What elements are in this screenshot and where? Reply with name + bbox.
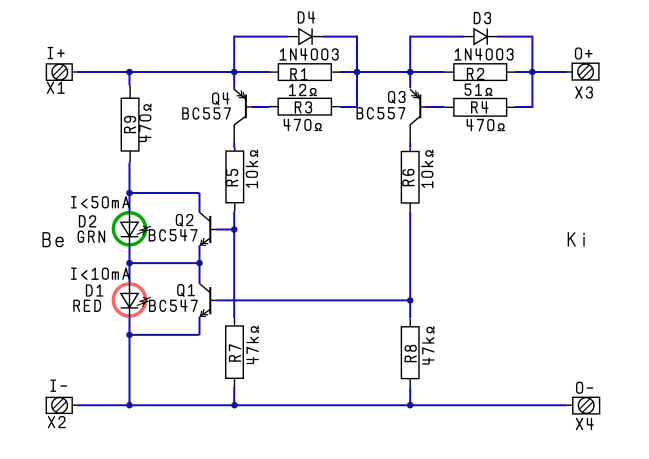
transistor Q1 [200,284,217,317]
wire node A to R9 [129,72,131,85]
LED D2 [113,211,151,246]
terminal X2 [46,397,77,413]
diode D3 value 1N4003 [455,49,513,60]
LED D1 current label [72,268,129,279]
node A junction [126,69,133,76]
terminal X4 name [577,419,594,430]
wire R3 right to node B [340,106,357,108]
wire Q1 emitter to node F [130,317,200,335]
resistor R5 name [227,170,238,186]
resistor R3 value 470Ω [284,119,321,130]
wire R8 to O- rail [409,387,411,405]
node D2-top junction [126,190,133,197]
wire D3 cathode to node D [497,36,532,38]
resistor R8 [401,319,419,388]
resistor R4 value 470Ω [467,120,504,131]
LED D1 name [87,285,103,296]
text Ki [568,233,584,246]
wire into D2 [129,193,131,211]
transistor Q2 [200,212,217,245]
transistor Q3 value BC557 [357,108,405,119]
resistor R3 name [295,102,311,113]
wire Q2 base node down to R7 [233,230,235,318]
resistor R2 name [468,68,484,79]
terminal X1 label I+ [48,48,64,59]
wire Q2 emitter down [199,246,201,263]
wire X1 to node A [78,71,270,73]
transistor Q4 value BC557 [183,108,231,119]
resistor R7 [226,318,244,387]
transistor Q4 name [213,93,229,105]
resistor R1 name [291,69,307,80]
resistor R2 value 51Ω [465,84,492,95]
resistor R5 [226,148,244,212]
wire D2 top to Q2 collector [130,193,200,212]
wire D2 to node E [129,246,131,263]
node F junction [126,332,133,339]
resistor R6 value 10kΩ [422,150,433,187]
resistor R7 name [230,345,241,361]
resistor R3 [269,98,340,115]
node A2 junction [231,69,238,76]
LED D2 name [80,216,96,227]
terminal X2 name [49,417,66,428]
Q1 base junction [407,297,414,304]
resistor R9 value 470Ω [140,104,151,141]
wire R4 right to node D [515,106,533,108]
terminal X1 [46,64,77,80]
wire node C to Q3 emitter [409,72,411,88]
resistor R8 value 47kΩ [423,327,434,364]
transistor Q2 name [176,215,192,227]
resistor R8 name [405,345,416,361]
wire node F to I- rail [129,335,131,405]
terminal X2 label I- [51,380,66,391]
transistor Q4 [234,89,251,143]
terminal X3 name [576,87,592,98]
diode D3 [463,28,497,44]
resistor R9 [121,85,139,162]
terminal X3 [567,63,599,80]
wire D4 cathode to node B [322,36,357,38]
transistor Q3 name [389,92,405,104]
wire R6 to Q1 base node [409,212,411,319]
terminal X4 label O- [577,382,593,393]
resistor R5 value 10kΩ [246,150,257,187]
rail junction 2 [231,402,238,409]
node D junction [529,69,536,76]
wire D1 to node F [129,318,131,335]
text Be [43,233,63,247]
wire node C up [409,36,411,72]
LED D1 value RED [74,300,101,311]
Q2 base junction [231,226,238,233]
wire node B vertical [356,36,358,108]
diode D4 value 1N4003 [280,49,338,60]
wire node B to R2 [340,71,445,73]
wire node A to Q4 emitter [233,72,235,90]
node B junction [354,69,361,76]
LED D1 [113,282,151,317]
rail junction 3 [407,402,414,409]
wire Q1 base [216,299,410,301]
wire R5 to Q2 base node [233,211,235,229]
diode D4 [288,28,322,44]
node E2 junction [196,260,203,267]
rail junction 1 [126,402,133,409]
wire R9 to node D2 top [129,162,131,193]
wire R2 to X3 [515,71,567,73]
resistor R9 name [125,116,136,132]
wire D2 bottom row [130,262,200,264]
terminal X1 name [48,82,65,93]
diode D3 name [474,13,490,24]
diode D4 name [298,12,314,23]
wire Q3 collector gap [409,143,411,148]
resistor R6 name [403,169,414,185]
terminal X3 label O+ [576,48,592,59]
resistor R4 name [472,102,488,113]
resistor R4 [445,99,515,117]
wire node A up [233,36,235,72]
resistor R7 value 47kΩ [247,326,258,363]
wire Q1 collector up [199,263,201,284]
node C junction [407,69,414,76]
node E junction [126,260,133,267]
resistor R2 [445,64,515,81]
transistor Q1 value BC547 [150,300,198,311]
LED D2 value GRN [78,231,104,242]
wire Q4 collector gap [233,143,235,148]
resistor R1 value 12Ω [290,84,317,95]
transistor Q1 name [178,285,194,297]
transistor Q2 value BC547 [149,230,197,241]
LED D2 current label [72,197,129,208]
wire node E into D1 [129,263,131,283]
wire Q4 base to R3 [251,106,270,108]
transistor Q3 [410,89,425,143]
wire to D4 anode [234,36,288,38]
wire Q2 base [216,229,234,231]
wire node D vertical [531,36,533,108]
terminal X4 [567,397,599,414]
resistor R1 [270,64,340,81]
wire to D3 anode [410,36,464,38]
resistor R6 [401,148,419,212]
wire I- rail [78,404,568,406]
wire Q3 base to R4 [425,106,445,108]
wire R7 to I- rail [233,387,235,405]
